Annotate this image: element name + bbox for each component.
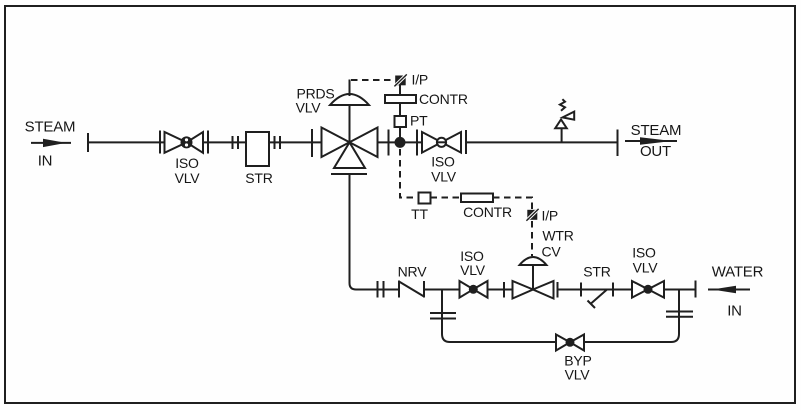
svg-text:I/P: I/P (542, 208, 559, 224)
wire I/P to WTR CV dome (dashed) (531, 221, 533, 256)
node pressure tap junction (395, 137, 406, 148)
label ISO VLV (water left) (460, 248, 486, 278)
svg-text:PT: PT (410, 113, 428, 129)
instrument I/P converter (steam control) (393, 73, 408, 88)
strainer STR (steam) (246, 132, 269, 166)
svg-text:VLV: VLV (431, 169, 457, 185)
svg-text:CV: CV (541, 244, 561, 260)
svg-text:ISO: ISO (431, 154, 455, 170)
label PRDS VLV (296, 86, 335, 116)
valve ISO VLV 4 (water isolation right) (632, 281, 664, 298)
label ISO VLV (water right) (632, 245, 658, 276)
label STEAM IN (25, 119, 76, 170)
wire controller to PT (399, 103, 401, 116)
svg-text:IN: IN (38, 153, 53, 170)
svg-text:STEAM: STEAM (631, 122, 682, 139)
instrument I/P converter (water control) (525, 207, 540, 222)
valve ISO VLV 3 (water isolation left) (460, 281, 488, 298)
svg-text:NRV: NRV (398, 263, 428, 279)
wire water line WTR CV to inlet (558, 289, 696, 291)
steam outlet flow arrow (625, 137, 677, 144)
wire bypass bottom run (442, 290, 679, 343)
wire TT to controller (dashed) (431, 197, 462, 199)
label BYP VLV (564, 353, 591, 383)
svg-text:OUT: OUT (640, 143, 671, 160)
wire NRV to ISO VLV (water) (424, 289, 460, 291)
union flange pair on right riser (666, 312, 693, 317)
steam inlet flow arrow (31, 139, 71, 147)
flange at steam outlet (617, 130, 619, 157)
actuator dome of PRDS valve (330, 80, 369, 143)
wire ISO VLV to WTR CV (488, 289, 513, 291)
svg-text:CONTR: CONTR (419, 91, 468, 107)
check valve NRV (399, 281, 424, 298)
union flange pair on left riser (430, 313, 456, 319)
flange right of node (416, 130, 418, 156)
svg-text:TT: TT (411, 206, 428, 222)
svg-text:VLV: VLV (460, 262, 486, 278)
svg-text:IN: IN (727, 303, 742, 320)
instrument TT temperature transmitter (419, 193, 431, 204)
flange at steam line start (87, 133, 89, 152)
svg-text:STR: STR (245, 170, 272, 186)
svg-text:ISO: ISO (175, 155, 199, 171)
flange left of node (388, 130, 390, 156)
wire bypass left riser (441, 290, 443, 335)
flange pair on water branch (378, 281, 384, 298)
safety relief valve (555, 99, 574, 142)
wire steam line PRDS to ISO VLV 2 (378, 141, 423, 143)
svg-text:I/P: I/P (412, 72, 429, 88)
svg-text:ISO: ISO (632, 245, 656, 261)
wire controller to I/P (dashed) (493, 198, 532, 211)
wire steam line to outlet (466, 141, 618, 143)
valve BYP VLV (bypass) (556, 335, 584, 351)
instrument CONTR controller (steam) (385, 95, 416, 103)
instrument CONTR controller (water) (461, 194, 493, 203)
label WTR CV (541, 228, 573, 260)
valve ISO VLV 2 (steam outlet isolation) (422, 130, 466, 154)
flange pair after strainer (275, 136, 281, 149)
svg-text:VLV: VLV (296, 100, 322, 116)
label ISO VLV (steam inlet) (175, 155, 201, 186)
flange pair before strainer (233, 136, 239, 149)
svg-text:VLV: VLV (633, 260, 659, 276)
control valve WTR CV (504, 257, 558, 299)
svg-text:VLV: VLV (175, 170, 201, 186)
wire PRDS valve drop to water line (350, 174, 400, 290)
valve PRDS VLV (pressure reducing desuperheating valve) (312, 128, 378, 175)
instrument PT pressure transmitter (395, 116, 407, 127)
water inlet flow arrow (708, 286, 750, 294)
svg-text:WATER: WATER (712, 264, 764, 281)
label ISO VLV (steam outlet) (431, 154, 457, 185)
wire steam line left segment (88, 141, 246, 143)
svg-text:WTR: WTR (542, 228, 573, 244)
wire strainer to PRDS valve (269, 141, 322, 143)
svg-text:VLV: VLV (565, 367, 591, 383)
label STEAM OUT (631, 122, 682, 160)
svg-text:STR: STR (583, 264, 610, 280)
wire I/P to controller (399, 85, 401, 96)
strainer STR (water, Y-type) (581, 283, 613, 309)
svg-text:CONTR: CONTR (463, 204, 512, 220)
label WATER IN (712, 264, 764, 320)
wire signal dome to I/P (dashed) (351, 79, 395, 81)
wire node to TT (dashed) (400, 149, 419, 198)
flange at water inlet (695, 281, 697, 298)
valve ISO VLV 1 (steam inlet isolation) (160, 131, 208, 154)
svg-text:STEAM: STEAM (25, 119, 76, 136)
wire PT to node (399, 127, 401, 142)
